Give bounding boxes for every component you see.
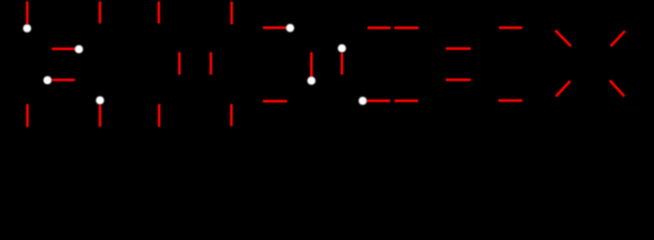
wire segment W18 (vertical under node N7) xyxy=(341,53,344,75)
wire segment W3 (horizontal from node N3) xyxy=(52,79,75,82)
wire segment W27 (X lower-left diagonal) xyxy=(556,81,570,96)
node N1 xyxy=(23,24,31,32)
wire segment W12 (middle vertical) xyxy=(210,52,213,74)
wire segment W7 (bottom vertical under node N4) xyxy=(99,105,102,127)
wire segment W20 (right horizontal lower) xyxy=(446,79,471,82)
node N5 xyxy=(286,24,294,32)
wire segment W21 (bottom dash a) xyxy=(367,100,391,103)
node N7 xyxy=(338,44,346,52)
wire segment W24 (far-right bottom dash) xyxy=(498,99,522,102)
node N6 xyxy=(307,77,315,85)
wire segment W22 (bottom dash b) xyxy=(395,100,419,103)
wire segment W16 (top dash a) xyxy=(368,26,391,29)
wire segment W25 (X upper-left diagonal) xyxy=(555,30,571,46)
node N4 xyxy=(96,96,104,104)
node N3 xyxy=(43,76,51,84)
wire segment W11 (middle vertical) xyxy=(178,52,181,74)
wire segment W6 (bottom-left vertical) xyxy=(26,104,29,127)
wire segment W5 (top vertical) xyxy=(158,1,161,23)
wire segment W15 (bottom horizontal) xyxy=(263,100,287,103)
wire segment W26 (X upper-right diagonal) xyxy=(611,31,625,46)
wire segment W13 (vertical to node N6) xyxy=(310,52,313,77)
wire segment W19 (right horizontal upper) xyxy=(446,47,471,50)
wire segment W8 (bottom vertical) xyxy=(158,104,161,127)
wire segment W28 (X lower-right diagonal) xyxy=(610,80,625,96)
node N2 xyxy=(75,45,83,53)
wire segment W9 (top vertical) xyxy=(230,2,233,25)
wire segment W17 (top dash b) xyxy=(394,26,418,29)
wire segment W14 (bottom vertical) xyxy=(230,104,233,126)
wire segment W4 (top vertical) xyxy=(99,1,102,23)
wire segment W23 (far-right top dash) xyxy=(499,26,522,29)
wire segment W2 (horizontal to node N2) xyxy=(52,47,75,50)
wire segment W10 (horizontal to node N5) xyxy=(263,26,286,29)
wire segment W1 (top-left vertical) xyxy=(26,1,29,24)
node N8 xyxy=(359,97,367,105)
